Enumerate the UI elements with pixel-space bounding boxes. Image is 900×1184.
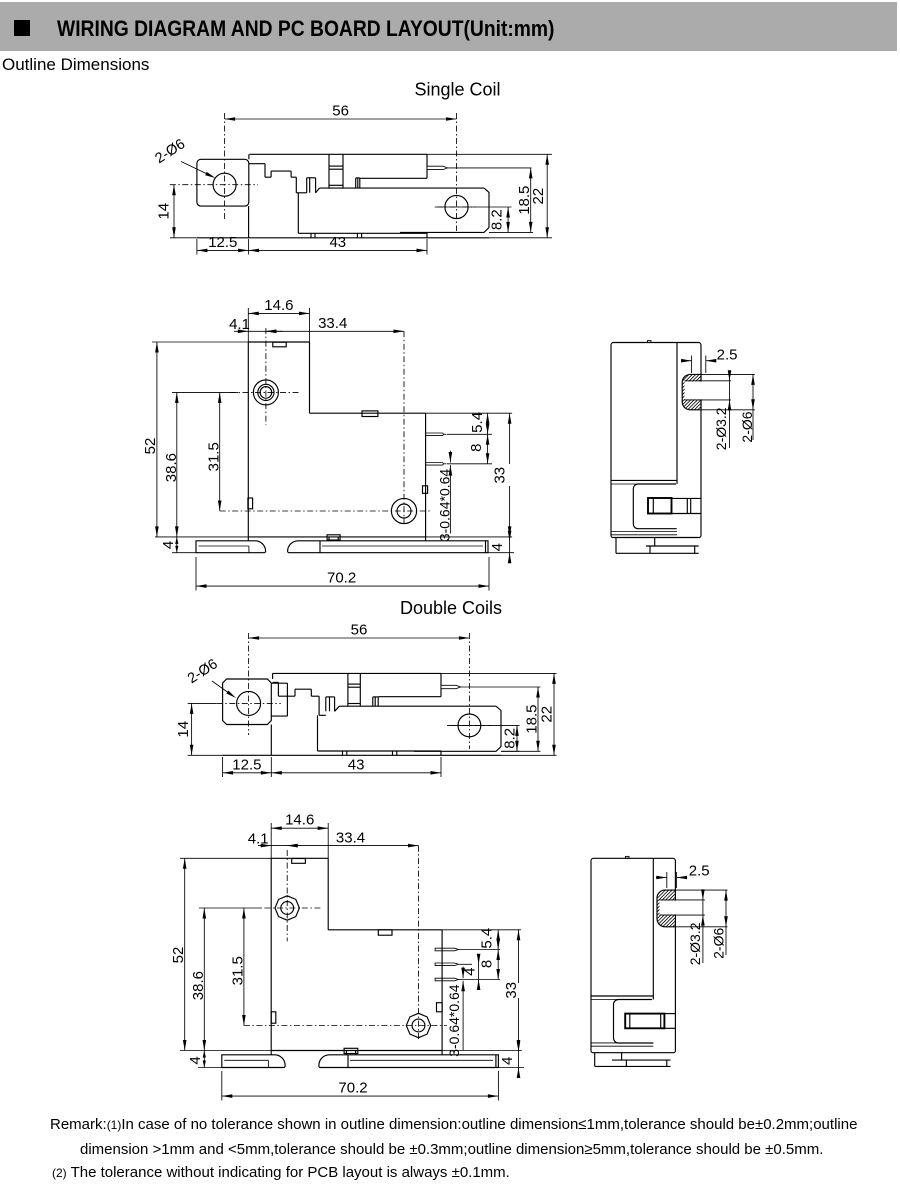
label 3-0.64*0.64 (front single) xyxy=(449,451,451,463)
svg-text:22: 22 xyxy=(539,706,556,723)
single top view: centerlines of left hole xyxy=(224,113,226,219)
double top view: right mounting tab xyxy=(414,706,501,751)
svg-text:2.5: 2.5 xyxy=(717,346,738,363)
dimension 4 left (front double) xyxy=(198,1067,222,1069)
double front view: slot on bottom edge xyxy=(344,1048,358,1053)
dimension 18.5 (top view double) xyxy=(501,750,541,752)
single top view: upper shelf to right edge xyxy=(360,177,427,179)
svg-text:2-Ø3.2: 2-Ø3.2 xyxy=(687,922,703,965)
single side view: rail clip U-shape xyxy=(633,484,676,529)
single side view: base feet xyxy=(615,538,617,554)
dimension 2-D3.2 (side double) xyxy=(702,893,704,963)
dimension 4 right (front double) xyxy=(499,1067,524,1069)
svg-text:12.5: 12.5 xyxy=(232,756,261,773)
single front view: solder pin 2 xyxy=(426,463,444,466)
remark line 3 xyxy=(52,1164,510,1181)
double top view: left coil lug xyxy=(325,697,327,711)
dimension 8.2 (top view single) xyxy=(507,207,509,232)
single top view: armature block xyxy=(328,154,330,188)
dimension 12.5 (top view double) xyxy=(222,757,224,777)
svg-text:2-Ø6: 2-Ø6 xyxy=(185,656,221,687)
svg-text:2-Ø6: 2-Ø6 xyxy=(739,411,755,442)
dimension 4.1 (front single) xyxy=(234,330,283,332)
header black square bullet xyxy=(14,20,30,36)
remark line 2 xyxy=(80,1141,823,1158)
double front view: top slot xyxy=(292,859,306,864)
dimension 22 (top view double) xyxy=(441,672,557,674)
double front view: solder pin 2 xyxy=(435,963,458,966)
dimension 2-D3.2 (side single) xyxy=(729,374,731,448)
double front view: body outline xyxy=(270,858,272,1050)
dimension 12.5 (top view single) xyxy=(196,239,198,255)
svg-text:4.1: 4.1 xyxy=(229,316,250,333)
double side view: ledge lines xyxy=(591,995,653,997)
double side view: pin hole band xyxy=(660,901,705,915)
dimension 4.1 (front double) xyxy=(258,845,301,847)
single side view: lower ledge lines xyxy=(611,531,677,533)
single side view: rail slot xyxy=(648,498,672,514)
dimension 2-D6 (side double) xyxy=(675,889,727,891)
dimension 4 left (front single) xyxy=(172,552,196,554)
dimension 14 (top view double) xyxy=(188,754,223,756)
single top view: right coil terminal lug xyxy=(355,178,357,188)
dimension 31.5 (front single) xyxy=(219,392,221,511)
double top view: tab-level line to right tab xyxy=(339,705,496,707)
svg-text:5.4: 5.4 xyxy=(469,412,486,433)
dimension 4 pins (front double) xyxy=(478,954,480,989)
double top view: terminal pin protruding right xyxy=(441,685,461,688)
single front view: base-body connectors xyxy=(247,537,249,541)
single side view: case/bracket boundary xyxy=(676,343,678,485)
double top view: mid profile xyxy=(273,681,279,683)
single top view: lower body xyxy=(297,193,299,234)
header title text xyxy=(57,16,554,42)
single front view: body outline xyxy=(247,342,249,537)
svg-text:33.4: 33.4 xyxy=(318,315,347,332)
svg-text:52: 52 xyxy=(142,438,159,455)
svg-text:33: 33 xyxy=(503,982,520,999)
single side view: pin hole band xyxy=(685,382,731,400)
single front view: latch slot on left edge xyxy=(248,498,253,509)
svg-text:8.2: 8.2 xyxy=(488,209,505,230)
svg-text:33: 33 xyxy=(491,467,508,484)
dimension 22 (top view single) xyxy=(427,153,552,155)
double top view: centerlines of right hole xyxy=(468,633,470,749)
dimension 33 (front single) xyxy=(426,536,512,538)
single top view: left coil terminal lug xyxy=(306,178,308,193)
svg-text:2-Ø3.2: 2-Ø3.2 xyxy=(713,407,729,450)
dimension 56 (top view single) xyxy=(225,118,457,120)
svg-text:43: 43 xyxy=(348,756,365,773)
dimension 2.5 (side double) xyxy=(666,872,668,888)
double front view: mid slot xyxy=(378,930,392,935)
double top view: base line xyxy=(223,754,501,756)
double side view: body outline xyxy=(591,858,675,1052)
svg-text:4: 4 xyxy=(187,1056,204,1064)
single front view: top slot xyxy=(273,342,286,347)
double front view: bottom octagon nut xyxy=(406,1013,430,1037)
dimension 2.5 (side single) xyxy=(691,356,693,374)
svg-text:38.6: 38.6 xyxy=(163,453,180,482)
double top view: upper shelf to right edge xyxy=(378,696,441,698)
double front view: DIN rail base left bar xyxy=(222,1055,285,1068)
svg-text:14.6: 14.6 xyxy=(264,297,293,314)
double front view: top octagon nut xyxy=(275,896,299,920)
dimension 2-D6 (side single) xyxy=(701,373,755,375)
single top view: base line xyxy=(197,237,489,239)
double top view: lower body xyxy=(317,715,319,751)
svg-text:8.2: 8.2 xyxy=(502,728,519,749)
double side view: case/bracket boundary xyxy=(652,858,654,999)
dimension 4 right (front single) xyxy=(488,552,514,554)
double front view: notch on right edge xyxy=(437,1003,443,1012)
dimension 52 (front double) xyxy=(180,857,271,859)
svg-text:52: 52 xyxy=(170,947,187,964)
svg-text:56: 56 xyxy=(351,622,368,639)
single front view: coil core rivet (top circle) xyxy=(253,380,278,405)
svg-text:8: 8 xyxy=(468,444,485,452)
dimension 14 (top view single) xyxy=(170,237,197,239)
single front view: bottom rivet circle xyxy=(391,498,416,523)
header gray bar xyxy=(0,2,897,51)
single side view: ledge lines xyxy=(611,479,677,481)
single top view: terminal pin protruding right xyxy=(427,166,448,169)
dimension 33.4 (front double) xyxy=(287,845,418,847)
double coils top view: left mounting tab xyxy=(223,679,272,725)
single front view: DIN rail base left bar xyxy=(196,541,266,553)
dimension 33 (front double) xyxy=(442,1050,522,1052)
dimension 33.4 (front single) xyxy=(266,330,404,332)
svg-text:31.5: 31.5 xyxy=(206,442,223,471)
svg-text:14.6: 14.6 xyxy=(285,812,314,829)
svg-text:4: 4 xyxy=(160,541,177,549)
svg-text:70.2: 70.2 xyxy=(327,569,356,586)
svg-text:22: 22 xyxy=(530,188,547,205)
double side view: rail clip U-shape xyxy=(614,1000,654,1044)
double front view: DIN rail base right bar xyxy=(319,1055,499,1068)
dimension 31.5 (front double) xyxy=(243,908,245,1026)
single front view: slot on bottom edge xyxy=(327,535,340,540)
dimension 38.6 (front double) xyxy=(199,907,262,909)
dimension 43 (top view double) xyxy=(440,757,442,777)
svg-text:Double Coils: Double Coils xyxy=(400,598,502,618)
dimension 43 (top view single) xyxy=(426,239,428,255)
single top view: centerlines of right hole xyxy=(456,113,458,231)
double top view: body outline upper xyxy=(273,672,441,674)
dimension 52 (front single) xyxy=(152,341,248,343)
svg-text:4.1: 4.1 xyxy=(248,830,269,847)
single side view: parting tick on top edge xyxy=(648,341,652,343)
dimension 70.2 (front single) xyxy=(195,557,197,591)
dimension 8 (front double) xyxy=(497,950,499,980)
remark line 1 xyxy=(50,1116,857,1133)
svg-text:70.2: 70.2 xyxy=(338,1079,367,1096)
svg-text:8: 8 xyxy=(478,960,495,968)
section label: Outline Dimensions xyxy=(2,55,149,75)
single top view: tab-level line to right tab xyxy=(319,187,484,189)
svg-text:3-0.64*0.64: 3-0.64*0.64 xyxy=(446,984,462,1057)
dimension 14.6 (front single) xyxy=(247,308,249,342)
single top view: right mounting tab xyxy=(400,188,489,232)
double side view: rail slot xyxy=(625,1014,664,1029)
svg-text:2-Ø6: 2-Ø6 xyxy=(710,928,726,959)
double front view: latch slot on left edge xyxy=(271,1012,276,1023)
dimension 8.2 (top view double) xyxy=(501,750,520,752)
single top view: body outline upper xyxy=(250,153,428,155)
svg-text:56: 56 xyxy=(332,103,349,120)
svg-text:14: 14 xyxy=(175,721,192,738)
label 3-0.64*0.64 (front double) xyxy=(462,967,464,979)
dimension 5.4 (front double) xyxy=(442,929,521,931)
svg-text:12.5: 12.5 xyxy=(208,234,237,251)
single front view: notch on right edge xyxy=(423,486,428,494)
double front view: solder pin 3 xyxy=(435,978,458,981)
svg-text:3-0.64*0.64: 3-0.64*0.64 xyxy=(437,469,453,542)
single side view: body outline xyxy=(611,343,701,538)
dimension 70.2 (front double) xyxy=(221,1071,223,1101)
double front view: solder pin 1 xyxy=(435,948,458,951)
svg-text:2.5: 2.5 xyxy=(689,863,710,880)
svg-text:4: 4 xyxy=(499,1057,516,1065)
svg-text:31.5: 31.5 xyxy=(230,956,247,985)
single front view: solder pin 1 xyxy=(426,433,444,436)
double top view: coil divider block xyxy=(347,673,349,706)
dimension 14.6 (front double) xyxy=(270,823,272,858)
svg-text:38.6: 38.6 xyxy=(190,971,207,1000)
dimension 5.4 (front single) xyxy=(426,412,512,414)
svg-text:14: 14 xyxy=(155,203,172,220)
double side view: lower ledge lines xyxy=(591,1042,653,1044)
dimension 38.6 (front single) xyxy=(172,391,238,393)
double front view: base-body connectors xyxy=(270,1051,272,1055)
svg-text:4: 4 xyxy=(489,543,506,551)
double side view: parting tick on top edge xyxy=(626,856,630,858)
dimension 8 (front single) xyxy=(487,434,489,464)
dimension 56 (top view double) xyxy=(249,637,470,639)
double top view: right coil lug xyxy=(372,697,374,706)
svg-text:5.4: 5.4 xyxy=(478,928,495,949)
single front view: DIN rail base right bar xyxy=(288,541,488,553)
svg-text:Single Coil: Single Coil xyxy=(414,80,500,100)
double top view: bracket plate behind tab xyxy=(271,682,287,684)
double side view: base feet xyxy=(594,1053,596,1067)
dimension 18.5 (top view single) xyxy=(489,231,533,233)
double top view: centerlines of left hole xyxy=(248,633,250,735)
svg-text:43: 43 xyxy=(329,234,346,251)
single coil top view: left mounting tab with hole xyxy=(197,159,249,206)
single front view: mid slot xyxy=(362,411,378,417)
svg-text:33.4: 33.4 xyxy=(336,829,365,846)
